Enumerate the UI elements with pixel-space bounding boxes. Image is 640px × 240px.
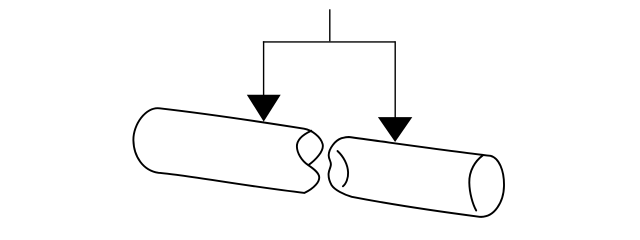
wire: horizontal bracket line [263,41,395,43]
right cap end-face ellipse arc [469,155,483,210]
right cylinder piece outline [329,137,504,217]
wire: left branch vertical [263,41,265,96]
arrowhead left [247,95,281,122]
wire: top vertical leader line [329,9,331,41]
left piece break inner curl [297,131,311,165]
right piece break inner curl [338,151,349,186]
wire: right branch vertical [394,41,396,118]
arrowhead right [378,117,412,142]
left cylinder piece outline [133,108,322,193]
